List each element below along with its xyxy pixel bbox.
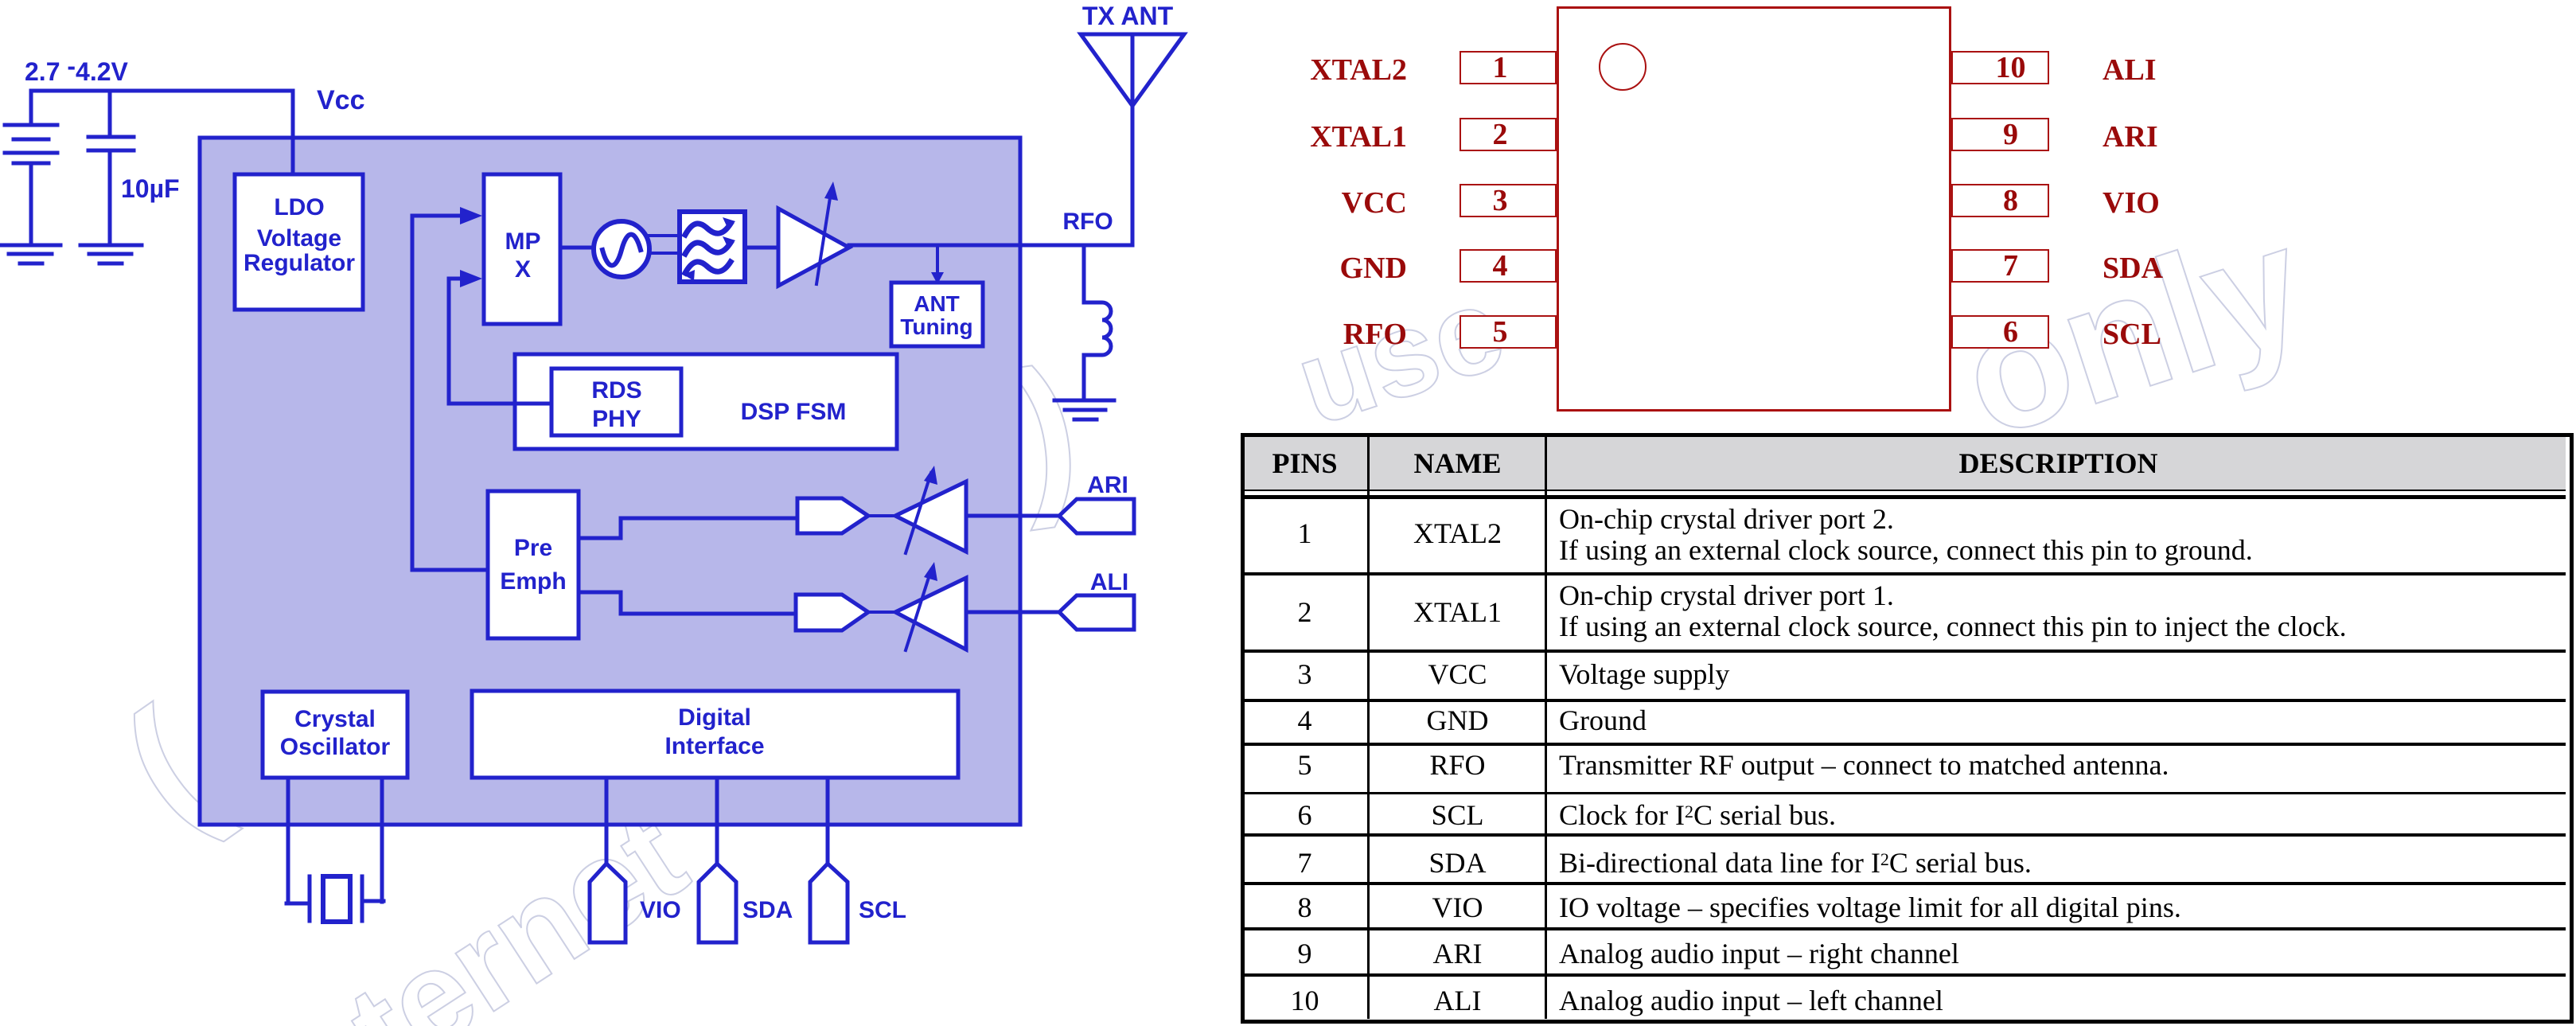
pin number 4 (1452, 249, 1549, 283)
arrow to ANT tuning (936, 248, 939, 274)
svg-text:2.7 -4.2V: 2.7 -4.2V (25, 52, 129, 86)
MPX input arrowheads (460, 207, 482, 224)
pin 7 box (1951, 249, 2049, 283)
Crystal Oscillator box (263, 692, 407, 778)
net label SCL (2102, 317, 2161, 352)
wire Pre Emph feedback (412, 568, 488, 572)
wire Vcc rail (31, 91, 293, 174)
SDA pad (699, 864, 736, 942)
svg-text:ANT: ANT (914, 291, 960, 316)
pin number 10 (1962, 51, 2060, 84)
chip block body (200, 138, 1020, 825)
ground (capacitor) (80, 245, 142, 263)
net label XTAL1 (1248, 119, 1407, 154)
DSP FSM box (515, 354, 897, 449)
VIO pad (590, 864, 625, 942)
ARI pad (1059, 499, 1134, 533)
svg-text:LDO: LDO (274, 194, 324, 220)
pin 9 box (1951, 118, 2049, 151)
svg-text:ALI: ALI (1090, 569, 1128, 595)
net label SDA (2102, 251, 2163, 286)
svg-text:Interface: Interface (664, 733, 764, 759)
wire SDA (715, 778, 719, 866)
watermark fragments (89, 674, 245, 864)
filter box (680, 212, 745, 282)
ground (antenna) (1054, 400, 1114, 419)
pin 3 box (1459, 184, 1557, 217)
net label ARI (2102, 119, 2158, 154)
svg-text:MP: MP (505, 228, 541, 255)
svg-text:Vcc: Vcc (317, 85, 365, 115)
net label VCC (1248, 185, 1407, 220)
coupling double line (649, 236, 681, 253)
svg-text:SCL: SCL (859, 897, 906, 923)
wire filter to PA (745, 246, 778, 250)
oscillator (sine source) (594, 221, 649, 277)
net label XTAL2 (1248, 53, 1407, 88)
RDS PHY box (551, 369, 681, 435)
SCL pad (810, 864, 848, 942)
svg-text:Crystal: Crystal (294, 706, 376, 732)
wire crystal left (286, 778, 290, 902)
wire MPX to oscillator (560, 246, 594, 250)
pin number 2 (1452, 118, 1549, 151)
inductor L1 (1084, 302, 1111, 355)
wire RFO net (849, 244, 1132, 248)
PA amplifier (variable) (778, 209, 849, 286)
svg-text:DSP FSM: DSP FSM (741, 399, 847, 425)
ALI pad (1059, 595, 1134, 630)
svg-text:PHY: PHY (592, 406, 641, 432)
IC body U1 (1557, 6, 1951, 412)
pin 5 box (1459, 315, 1557, 349)
wire Pre Emph to left-channel buffer (579, 592, 796, 614)
pin 1 box (1459, 51, 1557, 84)
node between buffer and amp (ARI) (868, 514, 895, 517)
antenna TX ANT (1081, 34, 1184, 245)
pin number 1 (1452, 51, 1549, 84)
svg-text:ARI: ARI (1087, 472, 1128, 498)
node between buffer and amp (ALI) (868, 611, 895, 614)
Pre Emph box (488, 491, 579, 638)
pin number 9 (1962, 118, 2060, 151)
pin 4 box (1459, 249, 1557, 283)
wire to MPX input 2 (449, 279, 468, 404)
svg-text:Regulator: Regulator (244, 250, 355, 276)
wire RFO to inductor (1082, 245, 1086, 302)
svg-text:SDA: SDA (742, 897, 793, 923)
wire amp to ARI pad (966, 514, 1059, 518)
pin number 3 (1452, 184, 1549, 217)
svg-text:X: X (515, 256, 531, 283)
wire VIO (605, 778, 609, 866)
pin 6 box (1951, 315, 2049, 349)
pin number 5 (1452, 315, 1549, 349)
svg-text:RFO: RFO (1062, 209, 1113, 235)
battery B1 (5, 91, 57, 244)
wire amp to ALI pad (966, 611, 1059, 614)
amplifier (ALI, variable) (895, 578, 966, 650)
svg-text:10µF: 10µF (121, 174, 180, 203)
Digital Interface box (472, 691, 958, 778)
svg-text:Digital: Digital (678, 704, 751, 731)
wire to RDS PHY (449, 402, 551, 406)
amplifier (ARI, variable) (895, 482, 966, 552)
buffer pentagon (ALI path) (796, 595, 868, 630)
LDO voltage regulator box (235, 174, 363, 310)
filter waves (685, 224, 731, 273)
wire inductor to ground (1082, 355, 1086, 400)
wire Pre Emph to right-channel buffer (579, 518, 797, 538)
ANT Tuning box (891, 283, 983, 346)
pin-1 indicator circle (1599, 43, 1647, 91)
pin 2 box (1459, 118, 1557, 151)
pin number 8 (1962, 184, 2060, 217)
svg-text:Emph: Emph (500, 568, 566, 595)
net label ALI (2102, 53, 2157, 88)
svg-text:Tuning: Tuning (900, 314, 972, 339)
svg-text:Oscillator: Oscillator (280, 734, 391, 760)
pin 10 box (1951, 51, 2049, 84)
net label GND (1248, 251, 1407, 286)
net label RFO (1248, 317, 1407, 352)
capacitor C1 10uF (88, 91, 134, 244)
svg-text:RDS: RDS (591, 377, 641, 404)
MPX box (484, 174, 560, 324)
crystal X1 (286, 876, 384, 922)
pin 8 box (1951, 184, 2049, 217)
buffer pentagon (ARI path) (797, 498, 868, 533)
net label VIO (2102, 185, 2160, 220)
wire SCL (826, 778, 830, 866)
svg-text:TX ANT: TX ANT (1082, 2, 1174, 30)
ground (battery) (2, 245, 60, 263)
svg-text:Voltage: Voltage (257, 225, 341, 252)
pin number 7 (1962, 249, 2060, 283)
svg-text:VIO: VIO (640, 897, 681, 923)
pin number 6 (1962, 315, 2060, 349)
svg-text:Pre: Pre (514, 535, 552, 561)
wire crystal right (380, 778, 384, 902)
wire feedback to MPX input 1 (412, 216, 468, 570)
